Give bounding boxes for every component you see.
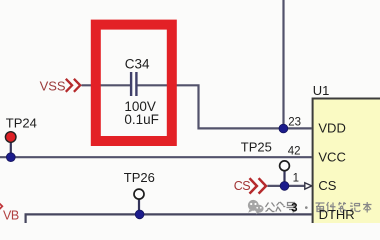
svg-text:VCC: VCC — [318, 149, 345, 164]
testpoint TP25 — [241, 139, 290, 170]
node junction pin23 — [279, 124, 288, 133]
wire TP25 stub — [283, 171, 285, 186]
svg-text:C34: C34 — [125, 57, 150, 72]
net label VSS — [40, 79, 81, 94]
svg-text:CS: CS — [234, 179, 250, 193]
watermark text jian — [327, 202, 336, 212]
svg-text:TP24: TP24 — [6, 115, 37, 130]
watermark logo — [248, 200, 264, 214]
net label VB — [0, 203, 19, 223]
wire VCC horizontal — [0, 156, 312, 158]
wire VSS stub to capacitor — [82, 84, 131, 86]
svg-text:TP25: TP25 — [241, 139, 272, 154]
svg-text:U1: U1 — [313, 83, 330, 98]
watermark text hao — [287, 203, 296, 213]
svg-text:VB: VB — [3, 209, 19, 223]
watermark dot separator — [305, 206, 308, 209]
watermark text ji — [350, 203, 360, 212]
svg-text:23: 23 — [288, 116, 301, 128]
watermark text zhong — [276, 202, 286, 212]
svg-text:CS: CS — [318, 178, 336, 193]
wire TP24 stub — [10, 140, 12, 157]
wire CS net — [268, 185, 306, 187]
pin 1 input arrow — [305, 183, 312, 189]
svg-text:3: 3 — [291, 202, 297, 214]
watermark text bi — [339, 202, 347, 212]
watermark text ben — [363, 202, 372, 213]
wire vertical from top edge to node — [282, 0, 284, 128]
node junction TP26 — [135, 210, 144, 219]
wire capacitor to VDD pin 23 — [138, 85, 312, 128]
svg-text:VSS: VSS — [40, 79, 66, 94]
highlight red rectangle — [96, 25, 172, 141]
svg-text:VDD: VDD — [318, 121, 345, 136]
watermark text ying — [316, 203, 325, 212]
capacitor C34 — [124, 57, 159, 127]
watermark text gong — [266, 203, 275, 212]
svg-text:TP26: TP26 — [124, 170, 155, 185]
node junction CS/TP25 — [280, 182, 289, 191]
net label CS — [234, 178, 266, 193]
testpoint TP26 — [124, 170, 155, 199]
svg-text:0.1uF: 0.1uF — [124, 112, 159, 127]
IC U1 body — [313, 83, 380, 229]
svg-text:42: 42 — [288, 146, 301, 158]
testpoint TP24 — [5, 115, 36, 142]
svg-text:DTHR: DTHR — [319, 207, 355, 222]
wire DTHR bottom net with corner — [26, 214, 312, 223]
node junction TP24 — [6, 153, 15, 162]
wire TP26 stub — [138, 199, 140, 214]
svg-text:1: 1 — [293, 172, 299, 184]
